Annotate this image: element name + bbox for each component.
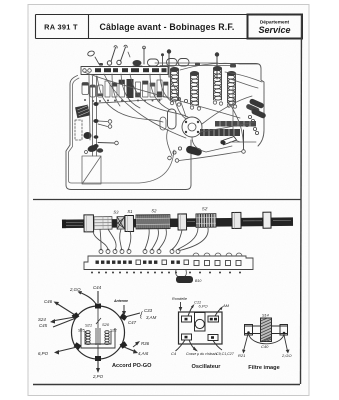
small component above strip left xyxy=(87,50,95,57)
tag strip solder lugs xyxy=(95,68,167,72)
wire clamp3 to lug9 xyxy=(173,230,183,249)
oscillator body rect xyxy=(179,312,223,344)
wire panel drop xyxy=(89,74,90,140)
svg-text:6,PO: 6,PO xyxy=(199,304,208,309)
wire S2 to lug7 xyxy=(152,229,158,249)
socket circle xyxy=(72,306,125,359)
eyelet with pin wire b xyxy=(117,60,121,64)
svg-text:B10: B10 xyxy=(195,279,201,283)
svg-text:Cosse μ du châssis: Cosse μ du châssis xyxy=(186,352,217,356)
svg-text:C4: C4 xyxy=(171,351,177,356)
socket terminal upper-right xyxy=(120,313,128,321)
arrow Cosse du chassis xyxy=(189,340,196,351)
svg-text:AM: AM xyxy=(222,303,230,308)
wire S2p to lug10b xyxy=(180,228,209,251)
dashed component xyxy=(75,120,82,140)
wire coil1 base lead xyxy=(175,100,186,119)
svg-text:R36: R36 xyxy=(141,341,150,346)
tube socket xyxy=(182,117,202,137)
horizontal cylinder on strip 2 xyxy=(167,59,178,67)
RF unit outline right xyxy=(219,64,264,147)
svg-text:Antenne: Antenne xyxy=(113,299,128,303)
wire socket bottom lead xyxy=(192,137,232,152)
curve to C11 6,PO xyxy=(188,306,193,316)
S14 hatched core xyxy=(261,318,272,342)
strip bottom rivet dots xyxy=(91,272,241,274)
wire lug to coil former xyxy=(150,74,170,110)
B10 capacitor leads xyxy=(176,270,187,277)
wire horizontal node link xyxy=(230,141,256,143)
resistor cyl 2 xyxy=(90,85,96,97)
wire coil1 to socket xyxy=(170,77,186,117)
misc terminal circles xyxy=(168,97,259,162)
header table frame xyxy=(36,15,303,39)
slanted capacitor pill 2 xyxy=(251,108,267,119)
wire socket to switch bar xyxy=(200,122,255,132)
lug top-left xyxy=(182,316,192,322)
wire lug drop xyxy=(112,74,120,106)
svg-text:Oscillateur: Oscillateur xyxy=(192,364,222,370)
tag strip eyelet 2 xyxy=(88,69,92,73)
clamp 2 xyxy=(125,215,134,231)
wire S3 to lug3 xyxy=(108,229,116,249)
wire S2p to lug10 xyxy=(179,228,199,249)
chassis outline left plate outer xyxy=(66,76,191,190)
lead to 2,GO xyxy=(284,335,288,351)
svg-text:2,GO: 2,GO xyxy=(69,287,81,292)
horizontal band xyxy=(245,326,288,334)
svg-text:S14: S14 xyxy=(262,314,269,318)
antenna pin rod 2 xyxy=(216,56,218,79)
svg-text:S3: S3 xyxy=(113,210,119,215)
svg-text:S2′: S2′ xyxy=(202,206,208,211)
svg-text:Accord PO-GO: Accord PO-GO xyxy=(112,363,152,369)
electrolytic C31 xyxy=(82,83,89,95)
slanted capacitor pill 3 xyxy=(221,137,237,145)
center vertical line xyxy=(97,306,99,359)
wire coil4 base lead xyxy=(230,104,244,149)
resistor cylinder row below strip xyxy=(82,79,168,102)
coil base eyelets xyxy=(170,101,236,110)
lug bottom-left xyxy=(182,334,192,340)
svg-text:C33: C33 xyxy=(144,308,153,313)
arrow to 4,AM xyxy=(124,347,136,352)
horizontal cylinder on strip 1 xyxy=(148,59,159,66)
terminal strip xyxy=(84,256,253,270)
arrow to 6,PO xyxy=(56,347,77,352)
svg-text:4,Ant: 4,Ant xyxy=(138,351,149,356)
svg-text:C40: C40 xyxy=(261,344,269,349)
resistor cyl 3 xyxy=(98,85,104,97)
tag strip xyxy=(81,67,168,75)
wire socket to RF unit xyxy=(202,96,252,124)
wire long diagonal bus xyxy=(84,72,240,118)
clamp 5 xyxy=(263,212,271,228)
wire to RF edge xyxy=(225,72,262,82)
curve to C9 C1 C27 xyxy=(213,341,222,351)
wire strip to socket area xyxy=(97,76,163,122)
arrow to S24 C45 xyxy=(52,317,75,321)
dial window rectangle xyxy=(82,156,101,184)
arrow to 2,GO xyxy=(79,292,96,304)
svg-text:R21: R21 xyxy=(238,353,245,358)
socket terminal lower-right xyxy=(120,341,128,349)
component cluster mid xyxy=(105,81,110,97)
wire lug to coil1 xyxy=(160,74,172,102)
socket terminal top xyxy=(95,304,101,309)
lead C44 xyxy=(97,291,99,303)
svg-text:Filtre image: Filtre image xyxy=(248,365,279,371)
RF coil column 3 xyxy=(214,67,222,101)
wire to terminal circle right xyxy=(98,142,114,145)
small rounded component xyxy=(160,117,166,130)
svg-text:C9,C1,C27: C9,C1,C27 xyxy=(216,352,235,356)
wire lug to electrolytic xyxy=(104,74,186,138)
RF coil column 2 xyxy=(191,72,199,106)
slanted electrolytic lower middle xyxy=(185,145,202,156)
bracket with coils xyxy=(81,328,115,348)
arc C40 xyxy=(249,334,285,344)
svg-text:Câblage avant - Bobinages R.F.: Câblage avant - Bobinages R.F. xyxy=(99,22,234,32)
small pin xyxy=(162,56,164,66)
svg-text:2,PO: 2,PO xyxy=(92,374,104,379)
svg-text:C47: C47 xyxy=(128,320,137,325)
RF coil column 1 xyxy=(171,68,179,102)
svg-text:RA 391 T: RA 391 T xyxy=(44,23,78,32)
svg-text:S1: S1 xyxy=(127,209,132,214)
wire S1 to lug4 xyxy=(120,229,122,249)
socket terminal lower-left xyxy=(74,342,82,350)
arrow to 2,PO xyxy=(97,361,99,369)
wire clamp1 to lug1 xyxy=(93,231,108,249)
left transformer dark box xyxy=(75,105,90,118)
rod left endcap xyxy=(62,220,66,229)
right frame line xyxy=(301,15,302,384)
strip filled square terminals xyxy=(96,261,180,264)
lug top-right xyxy=(208,316,219,322)
long wire right from panel xyxy=(98,99,162,103)
terminal dot right xyxy=(283,332,286,335)
RF unit inner outline xyxy=(233,86,240,142)
arrow Moyenne xyxy=(123,305,125,313)
coil rod base xyxy=(62,217,293,228)
lead to C33 3,AM xyxy=(125,313,140,317)
arrows to C46 xyxy=(56,303,75,315)
switch bar dark hatched xyxy=(200,129,240,136)
strip open square terminals xyxy=(136,260,241,266)
cross wound section xyxy=(117,217,125,230)
bottom frame rule xyxy=(33,384,300,386)
wire terminals to node xyxy=(179,152,242,161)
wires from coil bar to terminal strip xyxy=(93,228,208,251)
slanted capacitor pill 1 xyxy=(249,98,265,109)
coil S2prime winding xyxy=(196,214,216,228)
left end block xyxy=(245,325,253,336)
wire lug to coil2 xyxy=(130,74,188,117)
svg-text:S24: S24 xyxy=(38,317,46,322)
clamp 3 xyxy=(178,214,187,230)
coil S22 winding xyxy=(105,331,109,345)
wires to terminal circle pair xyxy=(98,121,108,127)
lead to R21 xyxy=(244,334,249,351)
top routing wires xyxy=(155,63,258,66)
vertical lead wire xyxy=(143,48,145,64)
svg-text:C46: C46 xyxy=(44,299,53,304)
dark oval component xyxy=(84,132,92,139)
B10 capacitor body xyxy=(176,276,193,283)
header Departement Service box xyxy=(248,15,303,39)
component bottom terminal dots xyxy=(84,99,86,101)
coil S2 winding xyxy=(136,215,170,229)
center coil small xyxy=(96,318,101,345)
svg-text:3,AM: 3,AM xyxy=(146,315,157,320)
rod sheen lines xyxy=(64,220,291,225)
capacitor blob on strip xyxy=(133,60,142,66)
wire S3 to lug2 xyxy=(100,229,101,249)
middle separator rule xyxy=(33,199,301,201)
eyelet with pin wire a xyxy=(107,61,111,65)
component dashes above strip xyxy=(99,63,236,68)
strip eyelets row xyxy=(99,250,180,254)
terminal dot left xyxy=(247,331,250,334)
wire S1 to lug5 xyxy=(129,231,131,249)
slanted capacitor pill 1b xyxy=(245,103,260,113)
wire S2 to lug8 xyxy=(159,229,166,249)
svg-text:Rondelle: Rondelle xyxy=(172,297,187,301)
curve to C4 xyxy=(176,340,186,351)
wire trimmer to terminals xyxy=(167,129,172,156)
wire to RF corner xyxy=(230,79,258,88)
RF coil column 4 xyxy=(228,72,236,106)
svg-text:C44: C44 xyxy=(93,285,102,290)
dark can xyxy=(127,79,134,98)
wire top routing xyxy=(180,63,240,70)
svg-text:C45: C45 xyxy=(39,323,48,328)
vertical sub-panel edge xyxy=(93,76,97,156)
chassis outline left plate inner xyxy=(69,78,175,183)
wire lug to switch xyxy=(121,74,140,108)
rounded component left of socket xyxy=(168,109,177,129)
horizontal cylinder on strip 3 xyxy=(178,59,189,67)
lug bottom-right xyxy=(208,335,218,341)
short tick wire xyxy=(128,52,130,57)
svg-text:6,PO: 6,PO xyxy=(38,351,49,356)
dark blob cluster xyxy=(87,144,98,153)
svg-text:S22: S22 xyxy=(110,329,118,333)
socket terminal bottom xyxy=(95,356,101,361)
coil S25 winding xyxy=(86,331,90,345)
svg-text:S21: S21 xyxy=(85,323,92,328)
svg-text:S2: S2 xyxy=(151,208,157,213)
clamp 4 xyxy=(232,212,241,228)
tag strip eyelet 1 xyxy=(83,69,87,73)
clamp 1 xyxy=(84,215,94,232)
wire S2 to lug6 xyxy=(145,229,149,249)
lead to C45 xyxy=(53,318,76,327)
wire end dots xyxy=(100,249,179,251)
trimmer block xyxy=(195,313,206,332)
terminal strip top notches xyxy=(193,253,242,256)
panel eyelets xyxy=(93,102,98,106)
lead wire left component xyxy=(95,57,99,64)
socket terminal upper-left xyxy=(72,312,80,320)
svg-text:2,GO: 2,GO xyxy=(281,353,292,358)
antenna pin rod 1 xyxy=(168,53,170,77)
arrow R36 xyxy=(133,343,138,347)
coil S3 winding xyxy=(94,217,112,230)
curve to AM xyxy=(215,308,222,316)
trimmer screw circle xyxy=(195,319,204,328)
svg-text:Service: Service xyxy=(258,25,290,35)
svg-text:S25: S25 xyxy=(78,329,86,333)
right end block xyxy=(280,325,288,336)
svg-text:S20: S20 xyxy=(102,322,110,327)
